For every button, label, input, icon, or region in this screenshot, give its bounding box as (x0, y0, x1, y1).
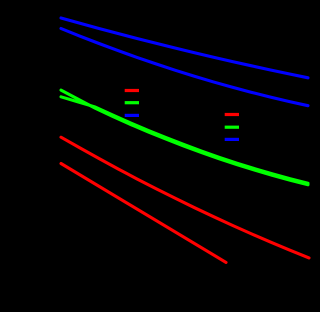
green curve B (shallower start) (61, 97, 308, 184)
legend 2 blue key (225, 138, 239, 141)
legend 2 red key (225, 113, 239, 116)
blue curve 2 (61, 29, 308, 106)
legend 2 green key (225, 126, 239, 129)
legend 1 green key (125, 101, 139, 104)
red curve 2 (short, ends mid-plot) (61, 164, 226, 263)
legend 1 red key (125, 89, 139, 92)
red curve 1 (long, to right edge) (61, 137, 309, 258)
green curve A (steeper start, crosses B) (61, 90, 308, 185)
blue curve 1 (top) (61, 18, 308, 78)
legend 1 blue key (125, 114, 139, 117)
